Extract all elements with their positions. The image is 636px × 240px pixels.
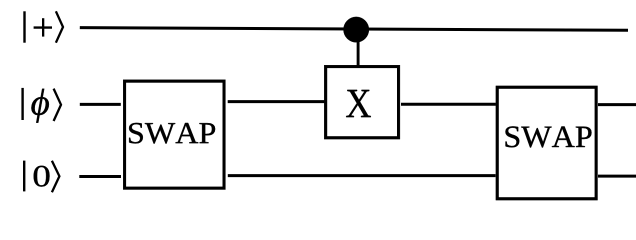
SWAP gate 2 label — [506, 126, 592, 147]
controlled-X gate box — [324, 65, 400, 139]
wire middle qubit segment left of SWAP1 — [80, 103, 121, 106]
qubit label |0> ket bar — [23, 161, 25, 192]
wire middle qubit segment X box to SWAP2 — [401, 103, 496, 106]
qubit label right angle bracket row 1 — [56, 11, 63, 42]
SWAP gate box 1 — [123, 80, 225, 190]
qubit label zero — [34, 166, 50, 187]
wire vertical control to X box — [357, 30, 360, 67]
wire middle qubit segment SWAP1 to X box — [228, 100, 325, 103]
qubit label |phi> ket bar — [21, 88, 23, 120]
wire bottom qubit segment left of SWAP1 — [79, 175, 121, 178]
wire bottom qubit segment right of SWAP2 — [598, 175, 636, 178]
qubit label phi — [31, 89, 49, 123]
qubit label right angle bracket row 3 — [52, 161, 60, 192]
SWAP gate box 2 — [496, 86, 598, 200]
SWAP gate 1 label — [129, 123, 215, 144]
qubit label plus sign — [34, 18, 52, 36]
qubit label right angle bracket row 2 — [54, 89, 61, 121]
wire middle qubit segment right of SWAP2 — [598, 103, 636, 106]
qubit label |+> ket bar — [23, 11, 25, 42]
wire bottom qubit segment SWAP1 to SWAP2 — [228, 174, 496, 177]
wire top qubit |+> — [80, 28, 628, 31]
X gate label — [346, 90, 371, 117]
control dot on top wire — [344, 17, 369, 42]
